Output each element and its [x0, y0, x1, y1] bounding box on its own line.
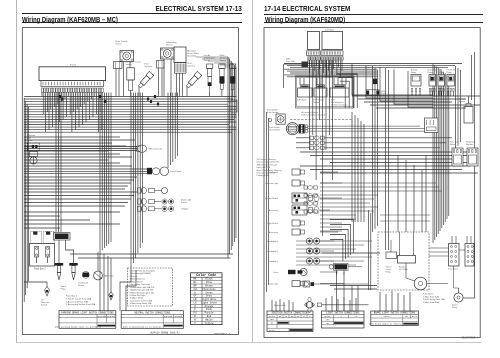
svg-text:6.Intermittent Light 10A: 1W: 6.Intermittent Light 10A: 1W: [130, 286, 155, 289]
svg-text:Light Switch: Light Switch: [267, 222, 278, 225]
svg-text:When brake pedal is depressed: When brake pedal is depressed: [369, 323, 406, 326]
svg-text:R: R: [356, 315, 358, 318]
svg-text:KEL2707B03 4: KEL2707B03 4: [461, 336, 478, 339]
svg-text:Sensor: Sensor: [459, 101, 466, 103]
svg-text:4.Wiper Switch: 4.Wiper Switch: [130, 280, 143, 283]
svg-text:BRAKE LIGHT SWITCH CONNECTIONS: BRAKE LIGHT SWITCH CONNECTIONS: [374, 312, 416, 315]
svg-text:Relay: Relay: [411, 72, 416, 74]
svg-text:1.Starter Circuit Fuse 30A: 1.Starter Circuit Fuse 30A: [66, 297, 92, 300]
svg-text:Sensor: Sensor: [220, 60, 227, 62]
svg-text:(with 120W Power Socket): (with 120W Power Socket): [302, 113, 326, 116]
svg-text:Color: Color: [384, 315, 391, 318]
svg-text:Rectifier: Rectifier: [466, 143, 474, 146]
svg-text:Yellow: Yellow: [205, 322, 214, 325]
svg-text:1.Work Lamp(120/60W): 1.Work Lamp(120/60W): [130, 273, 152, 275]
svg-text:Ground: Ground: [175, 315, 183, 318]
svg-text:Sensor: Sensor: [204, 60, 211, 62]
svg-text:Indicator Light (LED) 7W: Indicator Light (LED) 7W: [257, 161, 279, 164]
svg-text:8.Work Warning Light 1.4W: 8.Work Warning Light 1.4W: [130, 291, 154, 294]
svg-text:(KAF620 KB6B& 2001/A): (KAF620 KB6B& 2001/A): [150, 331, 181, 334]
svg-text:Accessory: Accessory: [269, 231, 278, 234]
svg-text:Ground: Ground: [107, 315, 115, 318]
svg-text:3.Accessory Socket Fuse 30A: 3.Accessory Socket Fuse 30A: [66, 303, 96, 306]
svg-text:Injection: Injection: [188, 65, 195, 68]
svg-text:3.Main Fuse 30A: 3.Main Fuse 30A: [423, 301, 439, 304]
svg-text:BL/R: BL/R: [412, 315, 418, 318]
svg-text:Frame: Frame: [70, 63, 77, 66]
svg-text:Headlight(s): Headlight(s): [267, 240, 278, 243]
svg-text:When transmission is in neutra: When transmission is in neutral: [123, 325, 162, 328]
svg-text:Switch: Switch: [41, 304, 47, 307]
svg-text:BK: BK: [405, 315, 408, 318]
svg-text:10.Wiper Motor: 10.Wiper Motor: [130, 297, 144, 300]
svg-text:Accessory System: Accessory System: [302, 111, 319, 114]
svg-text:(Fuel Meter): (Fuel Meter): [269, 129, 280, 132]
svg-text:9.Value Red Light: 9.Value Red Light: [130, 294, 146, 297]
svg-text:Y: Y: [340, 315, 342, 318]
svg-text:KAF620MB-1 4: KAF620MB-1 4: [214, 332, 230, 335]
svg-text:Plugs: Plugs: [61, 289, 66, 291]
svg-text:11.Custom Lite Fuse 30A: 11.Custom Lite Fuse 30A: [130, 299, 153, 302]
svg-text:Taillights: Taillights: [181, 208, 189, 211]
svg-text:Sensor: Sensor: [314, 102, 321, 104]
svg-text:Motor: Motor: [28, 139, 34, 142]
svg-text:Horn: Horn: [274, 272, 278, 274]
svg-text:Light (LED) 7W: Light (LED) 7W: [257, 166, 271, 169]
svg-text:Optional Parts (for Example): Optional Parts (for Example): [130, 270, 156, 273]
svg-text:Fuse Box 2: Fuse Box 2: [66, 296, 78, 298]
svg-text:Accessory: Accessory: [269, 209, 278, 212]
svg-text:Relay: Relay: [447, 72, 452, 74]
svg-text:Relay: Relay: [386, 272, 391, 274]
svg-text:When parking brake lever is pu: When parking brake lever is pulled in: [55, 325, 102, 328]
svg-text:Indicator Light: Indicator Light: [265, 182, 278, 185]
svg-text:YR: YR: [285, 315, 288, 318]
svg-text:3.Wiring Harness: 3.Wiring Harness: [130, 279, 145, 281]
svg-text:Fuse Box 1: Fuse Box 1: [423, 294, 434, 296]
svg-text:Assembly: Assembly: [187, 54, 196, 57]
svg-text:2.Accessory Fuse 30A: 2.Accessory Fuse 30A: [66, 300, 88, 303]
svg-text:Taillight(s): Taillight(s): [269, 260, 278, 263]
svg-text:7.Additional Light 10A: 5W: 7.Additional Light 10A: 5W: [130, 289, 154, 292]
svg-text:Relay: Relay: [438, 72, 443, 74]
svg-text:R: R: [309, 315, 311, 318]
svg-text:ON: ON: [271, 322, 274, 325]
svg-text:Sensor: Sensor: [126, 64, 133, 66]
svg-text:Relay: Relay: [452, 307, 457, 309]
svg-text:KVF Meter: KVF Meter: [297, 99, 307, 102]
svg-text:Color Code: Color Code: [196, 273, 216, 277]
svg-text:2.ECU Relay Fuse 10A: 2.ECU Relay Fuse 10A: [423, 298, 445, 301]
svg-text:ON: ON: [326, 322, 329, 325]
svg-text:Fuse Box 2: Fuse Box 2: [34, 269, 46, 271]
svg-text:Brake Light: Brake Light: [268, 283, 279, 286]
svg-text:Oil Pressure Warning: Oil Pressure Warning: [257, 159, 276, 161]
svg-text:1.Main Fuse 30A: 1.Main Fuse 30A: [423, 295, 439, 298]
svg-text:Sensor: Sensor: [116, 42, 123, 45]
svg-text:BK: BK: [279, 315, 282, 318]
svg-text:Alternator: Alternator: [105, 275, 115, 278]
svg-text:Fuse 10A: Fuse 10A: [286, 60, 295, 63]
svg-text:PARKING BRAKE LIGHT SWITCH CON: PARKING BRAKE LIGHT SWITCH CONNECTIONS: [61, 311, 114, 314]
svg-text:Injection: Injection: [145, 65, 152, 68]
svg-text:12.Accessory Relay 30A: 12.Accessory Relay 30A: [130, 302, 152, 305]
svg-text:Sensor: Sensor: [78, 284, 85, 287]
svg-text:MB Connector: MB Connector: [149, 148, 163, 151]
svg-text:OFF: OFF: [270, 318, 274, 321]
svg-text:Oil Switch: Oil Switch: [269, 171, 278, 174]
svg-text:BK: BK: [297, 315, 300, 318]
svg-text:Start: Start: [269, 329, 276, 332]
svg-text:Ignition Switch: Ignition Switch: [265, 197, 278, 200]
svg-text:Relay: Relay: [428, 72, 433, 74]
svg-text:12V 45Ah: 12V 45Ah: [399, 268, 408, 271]
svg-text:Headlight(s): Headlight(s): [267, 250, 278, 253]
svg-text:Sensor: Sensor: [166, 44, 173, 47]
svg-text:Outside: Outside: [97, 315, 106, 318]
svg-text:W: W: [303, 315, 305, 318]
svg-text:Outside: Outside: [164, 315, 173, 318]
svg-text:Fuel Pump: Fuel Pump: [171, 171, 182, 173]
svg-text:Switch: Switch: [181, 201, 187, 204]
svg-text:BR: BR: [291, 315, 294, 318]
svg-text:4WD Warning Indicator: 4WD Warning Indicator: [257, 163, 278, 166]
svg-text:2.Socket: 2.Socket: [130, 275, 138, 278]
svg-text:5.Accessory Connector: 5.Accessory Connector: [130, 283, 151, 286]
svg-text:OFF: OFF: [326, 318, 330, 321]
svg-text:Motor: Motor: [450, 143, 455, 146]
svg-text:Parking Brake: Parking Brake: [257, 175, 270, 177]
